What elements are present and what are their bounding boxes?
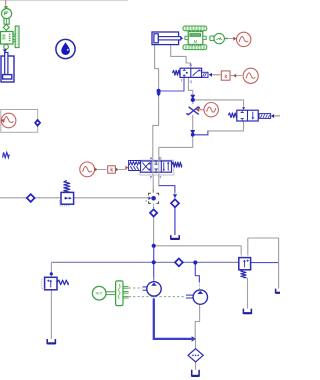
- ideal force source F1 (circle): [2, 9, 12, 19]
- bottom port circle of hard stop: [4, 44, 9, 49]
- junction dot (supply rail / pump2): [193, 260, 197, 264]
- mass-friction bottom bar: [183, 45, 207, 50]
- relief valve R2 spring right: [57, 280, 68, 285]
- relief valve R1 pilot dashes: [58, 200, 60, 205]
- pump P2 shaft stub: [186, 294, 193, 296]
- gearbox output stubs: [123, 286, 129, 288]
- wire: 4/3 valve P port down to tee node: [152, 172, 154, 193]
- wire: pump 2 return to junction: [195, 304, 199, 339]
- svg-text:MOT: MOT: [96, 292, 103, 296]
- wire: pump 1 bottom stub: [153, 296, 155, 299]
- valve V2 solenoid box: [202, 72, 208, 77]
- hard stop right port nubs: [13, 34, 15, 36]
- tee node junction (selected): [149, 193, 159, 203]
- pump P1 circle: [147, 282, 161, 296]
- valve V2 left spring: [172, 70, 180, 75]
- orifice diamond (supply rail): [175, 259, 183, 267]
- valve V3 right cell arrow down: [252, 112, 254, 119]
- junction dot (pump riser / check row): [152, 244, 156, 248]
- relief valve R1 body: [61, 192, 74, 204]
- wire: relief valve 2 to tank T3: [247, 278, 249, 309]
- wire: 2-way valve T port to junction: [159, 77, 184, 91]
- junction dot orifice line: [191, 133, 195, 137]
- sensor diamond on scope loop: [34, 119, 41, 127]
- tank T2: [171, 235, 179, 239]
- 4/3 proportional valve V1 frame: [140, 160, 174, 175]
- svg-text:q: q: [190, 80, 192, 84]
- wire: thick return line pump1 to filter junction: [154, 299, 192, 339]
- junction dot (pilot node): [191, 98, 195, 102]
- electric motor MOT circle: [92, 286, 106, 300]
- orifice diamond (tank branch): [173, 194, 177, 197]
- top window border: [0, 0, 128, 2]
- wire: mechanical dashed shaft gearbox to pump1: [129, 287, 143, 289]
- force source input arrowhead: [4, 6, 8, 9]
- svg-text:x: x: [224, 74, 227, 80]
- valve V1 right cell parallel arrows: [163, 162, 165, 170]
- valve V1 body: [141, 161, 172, 172]
- wire: relief valve (left) to tank T1: [50, 290, 52, 339]
- wire: force source input signal (top left): [5, 0, 7, 7]
- pump P1 shaft stub: [143, 286, 148, 288]
- svg-text:A: A: [150, 157, 153, 161]
- junction dot (cylinder/T line): [157, 89, 161, 93]
- hard stop block HS1: [1, 32, 14, 45]
- tank T1: [47, 339, 55, 343]
- signal source circle (2-way valve command): [243, 68, 258, 83]
- relief valve R3 (right) body: [239, 258, 251, 270]
- force source stem box: [4, 19, 9, 25]
- gain block k: [108, 166, 116, 173]
- hydraulic cylinder C1 (horizontal): [152, 32, 179, 45]
- custom hydraulic fluid block (droplet): [56, 39, 75, 58]
- hydraulic cylinder C2 (vertical, single-acting): [1, 56, 14, 82]
- connector square (mass to sensor): [210, 36, 214, 41]
- junction dot (pump riser / supply rail): [152, 260, 156, 264]
- scope loop wire (position scope): [1, 110, 38, 133]
- svg-text:P: P: [150, 176, 153, 180]
- valve V2 left cell closed symbols: [183, 69, 186, 77]
- spring fragment at left edge: [3, 152, 10, 157]
- wire: 4/3 valve T port to tank branch: [159, 172, 175, 200]
- relief valve R1 spring: [64, 180, 70, 192]
- wire: signal from right edge: [274, 115, 280, 117]
- valve V3 pilot arrow: [242, 107, 245, 109]
- relief valve R2 (left bottom) body: [45, 277, 57, 290]
- connector diamond below source: [3, 24, 9, 30]
- svg-text:B: B: [159, 157, 162, 161]
- valve V2 solenoid signal arrow: [209, 73, 212, 77]
- mass block port nubs: [185, 36, 188, 39]
- rod connection arrow (into cylinder): [3, 49, 7, 52]
- wire: gain to valve actuator: [119, 169, 126, 171]
- wire: pump pressure line left branch (relief row): [0, 197, 61, 199]
- motion sensor circle: [214, 33, 224, 43]
- arrow on wire (pilot down): [190, 95, 195, 99]
- junction dot above relief valve L: [50, 272, 53, 275]
- mass block M: [188, 32, 203, 45]
- wire: pump 2 feed staircase: [195, 263, 199, 283]
- wire: gain x to source: [230, 75, 242, 77]
- signal arrow into orifice: [196, 108, 199, 112]
- mass-friction top bar: [183, 26, 207, 31]
- wire: sensor to scope: [228, 38, 236, 40]
- wire: pilot node down through variable orifice: [192, 100, 194, 104]
- wire: main supply rail y=262: [51, 261, 238, 263]
- gearbox block: [116, 281, 123, 306]
- tank T4: [192, 370, 199, 376]
- fixed wall bar: [15, 26, 19, 48]
- wire: branch to check valve row: [154, 245, 242, 247]
- signal source circle (orifice command): [204, 103, 218, 117]
- valve V1 left actuator (solenoid+spring): [129, 161, 141, 171]
- wire: pilot node to pressure valve pilot: [193, 100, 244, 106]
- scope circle (velocity): [237, 32, 251, 46]
- valve V2 right cell arrow: [193, 70, 200, 76]
- wire: 2-way valve q port to pilot node: [188, 77, 192, 100]
- valve V1 center cell closed: [154, 162, 157, 172]
- valve V3 left cell closed: [241, 111, 244, 121]
- arrow on wire (down to valve A): [156, 93, 161, 97]
- wire: orifice line to pressure valve bottom: [193, 121, 244, 135]
- variable orifice (throttle) X: [188, 107, 199, 115]
- wire: orifice to tank T2: [174, 208, 176, 236]
- valve V1 left cell crossed arrows: [142, 163, 149, 171]
- valve V3 solenoid box: [259, 114, 271, 119]
- pressure compensator valve V3 body: [237, 110, 258, 121]
- 2-way valve V2 body: [180, 68, 202, 77]
- wire: pump 1 top stub: [153, 277, 155, 282]
- wire: line to 4/3 valve port B: [159, 135, 193, 161]
- wire: command to gain: [98, 169, 107, 171]
- valve V3 spring left: [228, 113, 236, 118]
- wire: junction down to 4/3 valve port A (with jog): [153, 91, 159, 161]
- signal source circle (valve command): [80, 162, 95, 177]
- wire: filter line to tank T4: [195, 339, 197, 349]
- wire: cylinder right port to 2-way valve port A: [171, 44, 191, 68]
- svg-text:k: k: [110, 168, 113, 174]
- wire: mechanical dashed shaft gearbox to pump2: [129, 296, 186, 298]
- orifice diamond (left rail): [27, 194, 35, 202]
- tank T3: [243, 309, 251, 314]
- orifice diamond (pump riser): [150, 209, 157, 216]
- wire: rail corner down to relief valve (left): [50, 262, 52, 277]
- motor shaft double line: [106, 291, 115, 293]
- tank T5 (right edge): [276, 289, 280, 293]
- arrow on wire (orifice down): [190, 130, 195, 134]
- gain block x: [221, 71, 230, 80]
- scope S1 (circle with waveform): [1, 113, 16, 128]
- relief valve R3 spring below: [241, 270, 246, 278]
- relief valve R2 pilot dashes: [41, 279, 43, 289]
- wire: relief valve 2 top feed: [248, 238, 279, 289]
- pump P2 circle: [193, 290, 207, 304]
- wire: cylinder left port down to junction: [155, 44, 159, 90]
- valve V1 right spring: [172, 162, 182, 167]
- svg-text:M: M: [194, 39, 198, 44]
- wire: solenoid to gain x: [212, 74, 220, 76]
- wire: tee node down to pump 1: [153, 204, 155, 210]
- filter diamond: [188, 349, 203, 362]
